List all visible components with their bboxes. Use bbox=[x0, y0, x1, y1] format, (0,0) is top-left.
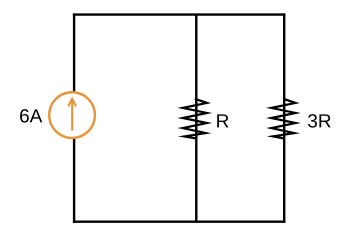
wire: left branch vertical bbox=[73, 13, 75, 223]
wire: right branch vertical bbox=[283, 13, 285, 223]
current source I1 circle bbox=[49, 92, 95, 138]
label 3R bbox=[308, 114, 331, 127]
resistor 3R zigzag bbox=[271, 99, 295, 139]
wire: middle branch vertical bbox=[195, 15, 197, 222]
wire: bottom horizontal (node B) bbox=[73, 220, 286, 222]
resistor R zigzag bbox=[183, 99, 207, 139]
label 6A bbox=[20, 109, 42, 122]
wire: top horizontal (node A) bbox=[73, 13, 286, 15]
current source arrowhead bbox=[68, 99, 76, 107]
label R bbox=[217, 114, 228, 127]
current source arrow shaft bbox=[71, 99, 73, 130]
